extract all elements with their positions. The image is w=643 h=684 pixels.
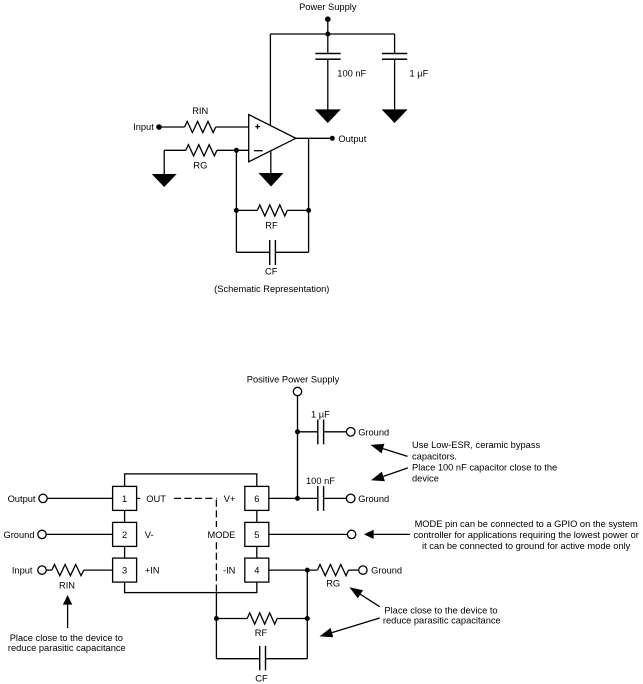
annotation MODE text — [414, 519, 639, 551]
wire C3 right lead — [324, 431, 346, 433]
wire C4 right lead — [324, 497, 346, 499]
svg-text:Place 100 nF capacitor close t: Place 100 nF capacitor close to the — [412, 462, 557, 472]
node Ground terminal (pin2) — [38, 530, 46, 538]
svg-text:(Schematic Representation): (Schematic Representation) — [214, 284, 329, 294]
op-amp U1 — [249, 115, 296, 162]
node Ground label (C4) — [358, 494, 389, 504]
svg-text:1: 1 — [122, 494, 127, 504]
node Ground label (RG) — [371, 566, 402, 576]
node Ground terminal (RG) — [359, 566, 367, 574]
node Output label — [338, 134, 366, 144]
wire Ground to pin2 — [46, 533, 112, 535]
capacitor CF — [269, 240, 276, 265]
wire output branch down — [308, 138, 310, 252]
node MODE terminal — [347, 530, 355, 538]
svg-text:RIN: RIN — [59, 581, 75, 591]
svg-text:Input: Input — [133, 122, 154, 132]
arrow MODE annotation — [364, 530, 410, 539]
annotation bypass caps text — [412, 440, 557, 483]
svg-text:device: device — [412, 474, 439, 484]
junction pin4 feedback tap — [305, 568, 310, 573]
pin 6 — [245, 486, 269, 510]
node Ground terminal (C4) — [346, 494, 355, 503]
svg-text:Place close to the device to: Place close to the device to — [384, 606, 497, 616]
svg-text:Power Supply: Power Supply — [299, 2, 357, 12]
wire RF left lead — [236, 209, 257, 211]
svg-text:CF: CF — [255, 673, 268, 683]
wire feedback right rail — [306, 570, 308, 659]
svg-text:2: 2 — [122, 530, 127, 540]
junction C4 tap — [295, 496, 300, 501]
value label RF — [265, 220, 278, 230]
svg-text:controller for applications re: controller for applications requiring th… — [414, 530, 639, 540]
svg-text:1 µF: 1 µF — [311, 409, 330, 419]
capacitor C4 (100 nF) — [317, 486, 324, 511]
svg-text:+IN: +IN — [145, 566, 160, 576]
node Input terminal — [38, 566, 46, 574]
wire input to RIN — [159, 126, 185, 128]
node Ground terminal (C3) — [346, 428, 355, 437]
wire C2 bottom lead — [394, 60, 396, 110]
node Output terminal — [39, 494, 47, 502]
svg-text:it can be connected to ground: it can be connected to ground for active… — [422, 541, 631, 551]
wire CF2 left lead — [216, 658, 259, 660]
resistor RG — [186, 145, 217, 156]
resistor RF (layout) — [247, 613, 277, 624]
pin label MODE — [206, 527, 238, 540]
resistor RF — [257, 205, 287, 216]
ground (RG) — [152, 174, 177, 187]
node Ground label (C3) — [358, 427, 389, 437]
value label RIN — [59, 581, 75, 591]
pin 3 — [113, 558, 137, 582]
svg-text:Input: Input — [12, 566, 33, 576]
svg-text:Ground: Ground — [358, 427, 389, 437]
svg-text:Output: Output — [8, 494, 36, 504]
pin label +IN — [145, 566, 160, 576]
svg-text:reduce parasitic capacitance: reduce parasitic capacitance — [383, 615, 501, 625]
arrow to C4 — [371, 468, 408, 481]
annotation RIN placement text — [8, 633, 126, 653]
junction RF left — [234, 208, 239, 213]
wire inverting branch down — [235, 150, 237, 252]
svg-text:Use Low-ESR, ceramic bypass: Use Low-ESR, ceramic bypass — [412, 440, 540, 450]
value label RG — [193, 160, 207, 170]
capacitor C3 (1 uF) — [317, 420, 324, 445]
svg-text:CF: CF — [265, 266, 278, 276]
node Input terminal dot — [156, 124, 162, 130]
svg-text:MODE: MODE — [207, 530, 235, 540]
value label RIN — [192, 106, 208, 116]
ground (C1) — [315, 109, 341, 123]
svg-text:100 nF: 100 nF — [306, 476, 335, 486]
pin label OUT — [146, 494, 166, 504]
wire pin4 to RG — [269, 569, 318, 571]
svg-text:capacitors.: capacitors. — [412, 451, 457, 461]
arrow RIN placement — [63, 595, 72, 628]
resistor RIN (layout) — [52, 565, 84, 576]
pin 5 — [245, 522, 269, 546]
resistor RG (layout) — [317, 565, 348, 576]
svg-text:OUT: OUT — [146, 494, 166, 504]
svg-text:3: 3 — [122, 566, 127, 576]
wire RIN to pin3 — [84, 569, 113, 571]
svg-text:-IN: -IN — [223, 566, 235, 576]
junction RF2 left — [214, 616, 219, 621]
value label 100 nF — [337, 68, 366, 78]
wire CF2 right lead — [266, 658, 307, 660]
svg-text:Output: Output — [338, 134, 366, 144]
value label 1 uF — [311, 409, 330, 419]
wire pin5 to MODE terminal — [269, 533, 348, 535]
wire RG to ground — [349, 569, 359, 571]
value label RF — [255, 628, 268, 638]
wire CF left lead — [236, 251, 269, 253]
value label 100 nF — [306, 476, 335, 486]
svg-text:100 nF: 100 nF — [337, 68, 366, 78]
wire ground corner to RG — [164, 149, 186, 151]
annotation RG/RF placement text — [383, 606, 501, 626]
wire C2 top lead — [394, 34, 396, 53]
svg-text:RF: RF — [265, 220, 278, 230]
node Power Supply label — [299, 2, 357, 12]
resistor RIN — [185, 121, 216, 132]
ground (C2) — [382, 109, 408, 123]
wire supply vertical — [327, 19, 329, 34]
wire RG to op-amp inverting input — [217, 149, 249, 151]
IC U2 package outline — [125, 474, 257, 593]
svg-text:V+: V+ — [224, 494, 236, 504]
wire C1 top lead — [327, 34, 329, 53]
capacitor C2 (1 uF) — [382, 53, 407, 60]
svg-text:5: 5 — [254, 530, 259, 540]
junction RF right — [306, 208, 311, 213]
svg-text:RIN: RIN — [192, 106, 208, 116]
wire CF right lead — [276, 251, 309, 253]
svg-text:1 µF: 1 µF — [410, 68, 429, 78]
wire RF right lead — [287, 209, 308, 211]
capacitor CF (layout) — [259, 646, 266, 670]
wire op-amp V- to ground — [270, 151, 272, 173]
wire pin6 to C4 — [269, 497, 317, 499]
node Input label — [133, 122, 154, 132]
ground (op-amp V-) — [259, 173, 284, 187]
svg-text:4: 4 — [254, 566, 259, 576]
node Positive Power Supply terminal — [293, 387, 301, 395]
pin label V+ — [224, 494, 236, 504]
caption schematic representation — [214, 284, 329, 294]
svg-text:6: 6 — [254, 494, 259, 504]
wire supply rail — [270, 33, 394, 35]
arrow to RG — [349, 587, 379, 607]
pin 2 — [113, 522, 137, 546]
wire supply down — [297, 396, 299, 499]
node Output terminal dot — [330, 136, 335, 141]
value label CF — [255, 673, 268, 683]
svg-text:RF: RF — [255, 628, 268, 638]
svg-text:reduce parasitic capacitance: reduce parasitic capacitance — [8, 643, 126, 653]
value label 1 uF — [410, 68, 429, 78]
wire output — [296, 137, 332, 139]
arrow to RF — [320, 618, 380, 637]
wire Output to pin1 — [47, 497, 112, 499]
wire RF2 right lead — [277, 618, 307, 620]
svg-text:Ground: Ground — [358, 494, 389, 504]
junction supply rail — [325, 32, 330, 37]
node Power Supply terminal dot — [325, 16, 331, 22]
junction C3 tap — [295, 429, 300, 434]
node Ground label (pin2) — [3, 530, 34, 540]
node Positive Power Supply label — [247, 374, 340, 384]
junction inverting node — [234, 148, 239, 153]
svg-text:RG: RG — [326, 579, 340, 589]
wire C1 bottom lead — [327, 60, 329, 110]
junction RF2 right — [305, 616, 310, 621]
pin 4 — [245, 558, 269, 582]
capacitor C1 (100 nF) — [315, 53, 340, 60]
wire V+ drop to op-amp — [269, 34, 271, 125]
wire feedback left rail below package — [215, 593, 217, 659]
wire RF2 left lead — [216, 618, 247, 620]
wire RIN to op-amp — [216, 126, 249, 128]
svg-text:Ground: Ground — [371, 566, 402, 576]
node Input label — [12, 566, 33, 576]
pin 1 — [113, 486, 137, 510]
svg-text:Ground: Ground — [3, 530, 34, 540]
arrow to C3 — [371, 444, 408, 457]
wire C3 left lead — [298, 431, 318, 433]
value label RG — [326, 579, 340, 589]
pin label -IN — [220, 563, 238, 576]
svg-text:Positive Power Supply: Positive Power Supply — [247, 374, 340, 384]
pin label V- — [145, 530, 154, 540]
net OUT dashed route — [137, 498, 217, 592]
wire Input to RIN — [46, 569, 52, 571]
svg-text:Place close to the device to: Place close to the device to — [10, 633, 123, 643]
svg-text:V-: V- — [145, 530, 154, 540]
node Output label — [8, 494, 36, 504]
value label CF — [265, 266, 278, 276]
svg-text:MODE pin can be connected to a: MODE pin can be connected to a GPIO on t… — [415, 519, 638, 529]
svg-text:RG: RG — [193, 160, 207, 170]
wire RG ground stub — [163, 150, 165, 174]
